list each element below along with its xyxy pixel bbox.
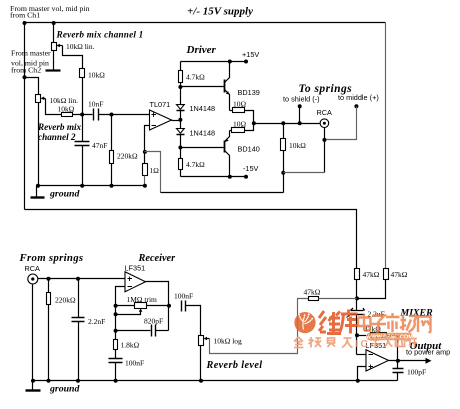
svg-text:4.7kΩ: 4.7kΩ (186, 160, 205, 169)
wire +15V rail (181, 61, 247, 63)
potentiometer 10k log (199, 336, 243, 381)
transistor BD139 (181, 62, 260, 111)
op-amp LF351 receiver (125, 264, 146, 292)
watermark text weiku (drawn strokes) (319, 310, 358, 334)
wire RCA bottom (324, 128, 326, 173)
wire driver output to RCA (254, 123, 321, 125)
node junction 220k top (110, 113, 114, 117)
resistor 47k mixer input 2 (357, 269, 408, 299)
node junction 10k top (281, 121, 285, 125)
svg-text:BD140: BD140 (238, 145, 260, 154)
node junction springs return (281, 171, 285, 175)
node junction 47nF ground (80, 184, 84, 188)
ground symbol upper (31, 186, 45, 198)
heading Reverb mix channel 2 (37, 122, 82, 142)
node junction 100nF ground (114, 379, 118, 383)
capacitor 100nF coupling (174, 292, 201, 336)
wire -15V rail (181, 176, 247, 178)
node terminal +15V (244, 60, 248, 64)
svg-text:10Ω: 10Ω (233, 120, 247, 129)
node junction RCA return (322, 138, 326, 142)
svg-text:to power amp: to power amp (406, 348, 450, 357)
wire ground bus upper (37, 185, 145, 187)
wire 10nF to op-amp (99, 114, 150, 116)
capacitor 100pF (393, 361, 427, 381)
node junction pot2 ground (36, 184, 40, 188)
svg-text:ground: ground (49, 189, 81, 200)
node junction Ch1 (23, 21, 27, 25)
svg-text:Driver: Driver (186, 44, 217, 56)
wire reverb level to mixer (210, 299, 309, 354)
wire receiver input (38, 278, 125, 280)
wire op-amp output to diode node (172, 120, 181, 122)
resistor 10 ohm lower (230, 120, 254, 133)
wire lower dry-signal bus to mixer 47k (25, 210, 357, 269)
svg-text:10Ω: 10Ω (233, 100, 247, 109)
resistor 47k mixer input 1 (355, 269, 380, 311)
watermark logo circle (294, 312, 315, 333)
node terminal -15V (244, 175, 248, 179)
svg-text:2.2nF: 2.2nF (88, 317, 105, 326)
capacitor 2.2nF (72, 279, 106, 381)
wire shield stem (299, 107, 301, 124)
node junction shield (298, 121, 302, 125)
node terminal shield (298, 104, 302, 108)
wire top dry-signal bus from Ch1 to mixer column (25, 22, 386, 24)
capacitor 820pF (116, 317, 169, 337)
resistor 220k (110, 115, 139, 186)
wire right dry column to mixer 47k (385, 23, 387, 269)
node junction diode midpoint (178, 118, 182, 122)
svg-text:100nF: 100nF (125, 359, 144, 368)
svg-text:to middle (+): to middle (+) (338, 93, 379, 102)
node junction mixer inverting (355, 333, 359, 337)
svg-text:47kΩ: 47kΩ (391, 270, 408, 279)
potentiometer 10k lin channel 2 (36, 95, 46, 186)
capacitor 2.2uF (347, 308, 385, 355)
node junction BD140 collector (228, 175, 232, 179)
svg-text:BD139: BD139 (238, 88, 260, 97)
node junction feedback (143, 150, 147, 154)
svg-text:47kΩ: 47kΩ (304, 288, 321, 297)
resistor 1.8k (114, 340, 140, 359)
node junction mixer input (355, 296, 359, 300)
wire op-amp inverting input feedback (145, 126, 150, 164)
wire ground bus lower (33, 380, 398, 382)
node junction 820pF left (114, 329, 118, 333)
wire pot1 wiper to 10k resistor (63, 46, 83, 69)
node junction mixer noninverting ground (356, 379, 360, 383)
node junction 2.2nF top (76, 277, 80, 281)
svg-text:10kΩ lin.: 10kΩ lin. (66, 42, 95, 51)
svg-text:47kΩ: 47kΩ (363, 270, 380, 279)
node junction output (396, 359, 400, 363)
wire pot2 wiper to 10k resistor (46, 99, 62, 115)
svg-text:1MΩ trim: 1MΩ trim (127, 295, 158, 304)
capacitor 10nF (88, 100, 103, 121)
node junction 1ohm ground (143, 184, 147, 188)
svg-text:Receiver: Receiver (138, 253, 177, 264)
svg-text:Reverb mix: Reverb mix (37, 122, 82, 132)
svg-text:10kΩ: 10kΩ (58, 105, 75, 114)
wire inverting input column (116, 287, 125, 340)
resistor 10k springs (281, 124, 307, 193)
svg-text:to shield (-): to shield (-) (283, 95, 320, 104)
svg-text:IC: IC (356, 338, 371, 350)
op-amp TL071 (150, 100, 172, 130)
resistor 220k receiver (47, 279, 77, 381)
wire left input line down to lower bus (24, 23, 26, 210)
node junction pot left (114, 304, 118, 308)
node summing junction (80, 113, 84, 117)
svg-text:From springs: From springs (19, 252, 84, 264)
transistor BD140 (181, 131, 260, 177)
svg-text:channel 2: channel 2 (38, 132, 76, 142)
resistor 47k mixer feedback (357, 325, 398, 361)
node Ch1 input label (10, 4, 90, 20)
watermark text dianzishichangwang (drawn strokes) (358, 313, 431, 332)
node junction pot1 top (52, 21, 56, 25)
ground symbol lower (26, 381, 41, 391)
node junction 220k ground (110, 184, 114, 188)
wire mixer noninverting to ground (358, 367, 367, 381)
node junction 220k ground (47, 379, 51, 383)
svg-text:from Ch2: from Ch2 (11, 66, 41, 75)
wire Ch2 branch to pot2 (25, 78, 39, 95)
node junction BD140 base (178, 146, 182, 150)
node arrow output to power amp (426, 358, 432, 364)
svg-text:TL071: TL071 (150, 100, 171, 109)
node junction Ch2 (23, 75, 27, 79)
diode 1N4148 lower (177, 129, 216, 159)
node junction 220k top (47, 277, 51, 281)
svg-text:1N4148: 1N4148 (190, 104, 216, 113)
watermark text quanqiu zuida IC caigou wangzhan (drawn strokes) (294, 337, 417, 350)
node terminal middle (354, 104, 358, 108)
capacitor 100nF receiver ground (109, 359, 145, 381)
svg-text:100nF: 100nF (174, 292, 193, 301)
node junction driver output (252, 121, 256, 125)
svg-text:Reverb level: Reverb level (206, 360, 263, 371)
wire feedback to springs return (145, 152, 161, 193)
resistor 10 ohm upper (230, 100, 254, 124)
resistor 4.7k lower (179, 159, 206, 177)
ground channel 1 pot (46, 69, 61, 71)
svg-text:1N4148: 1N4148 (190, 129, 216, 138)
resistor 10k channel 2 (58, 105, 75, 117)
wire mixer inverting input (357, 354, 367, 356)
wire 10k to summing node (73, 114, 93, 116)
svg-text:RCA: RCA (25, 264, 41, 273)
svg-text:+/- 15V supply: +/- 15V supply (187, 6, 253, 18)
svg-text:10kΩ: 10kΩ (289, 141, 306, 150)
capacitor 47nF (75, 115, 108, 186)
resistor 1 ohm (143, 164, 160, 186)
resistor 4.7k upper (179, 62, 206, 105)
resistor 47k reverb level (304, 288, 357, 301)
svg-text:+15V: +15V (242, 50, 259, 59)
diode 1N4148 upper (177, 104, 216, 129)
op-amp LF351 mixer (366, 341, 389, 371)
node junction BD139 base (178, 85, 182, 89)
svg-text:1Ω: 1Ω (150, 166, 160, 175)
svg-text:RCA: RCA (317, 108, 333, 117)
node junction BD139 collector (228, 60, 232, 64)
node junction 2.2nF ground (76, 379, 80, 383)
wire middle stem (325, 107, 357, 140)
potentiometer 1M trim (116, 295, 169, 315)
svg-text:10kΩ log: 10kΩ log (214, 337, 243, 346)
svg-text:220kΩ: 220kΩ (55, 296, 76, 305)
svg-text:From master: From master (11, 49, 51, 58)
RCA jack receiver (25, 264, 41, 284)
svg-text:from Ch1: from Ch1 (10, 11, 40, 20)
svg-text:47nF: 47nF (92, 141, 107, 150)
node junction pot ground (199, 379, 203, 383)
svg-text:ground: ground (49, 384, 81, 395)
resistor 10k channel 1 (80, 69, 106, 80)
svg-text:1.8kΩ: 1.8kΩ (121, 341, 140, 350)
wire RCA ground stem (32, 285, 34, 381)
svg-text:10nF: 10nF (88, 100, 103, 109)
node junction wiper return (114, 312, 118, 316)
wire mixer output (389, 360, 429, 362)
svg-text:4.7kΩ: 4.7kΩ (186, 73, 205, 82)
wire output column (146, 282, 169, 331)
svg-text:220kΩ: 220kΩ (117, 152, 138, 161)
potentiometer 10k lin channel 1 (52, 23, 63, 71)
node junction RCA ground (31, 379, 35, 383)
node Ch2 input label (11, 49, 51, 75)
svg-text:Reverb mix channel 1: Reverb mix channel 1 (56, 30, 144, 40)
svg-text:10kΩ: 10kΩ (88, 71, 105, 80)
RCA jack springs (317, 108, 333, 127)
svg-text:-15V: -15V (243, 164, 259, 173)
svg-text:LF351: LF351 (125, 264, 146, 273)
wire 10k to summing node (82, 78, 84, 115)
svg-text:820pF: 820pF (144, 317, 163, 326)
wire springs return (284, 172, 325, 174)
node junction pot right (167, 304, 171, 308)
watermark band dzsc.com (366, 333, 413, 341)
svg-text:100pF: 100pF (407, 368, 426, 377)
